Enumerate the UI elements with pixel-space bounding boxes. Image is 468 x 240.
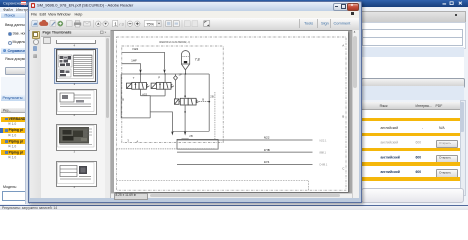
svg-text:2B: 2B (189, 134, 193, 138)
valve1 feed stem (139, 74, 141, 96)
enclosure right wall (208, 74, 210, 131)
white page (114, 31, 348, 192)
valve 1Y1 (solenoid valve) (126, 83, 149, 90)
thumbnail 2 (56, 89, 98, 115)
inner dashed riser (213, 92, 215, 140)
svg-text:P: P (158, 76, 160, 80)
reader menu bar (29, 11, 359, 19)
svg-text:RESERVOIR GAS FILLING PRESSURE: RESERVOIR GAS FILLING PRESSURE (→8) (159, 40, 190, 44)
svg-text:1HB: 1HB (263, 148, 269, 152)
svg-text:888.1: 888.1 (319, 151, 326, 155)
valve2 feed stem (164, 74, 166, 96)
line to port N22 (177, 139, 313, 141)
toolbar icons (29, 18, 319, 30)
link wire valve2 to lower run (150, 95, 165, 97)
svg-text:T: T (132, 76, 134, 80)
page down button (102, 21, 107, 26)
svg-text:1P4: 1P4 (263, 160, 269, 164)
wide button (361, 78, 465, 89)
zoom level box (144, 21, 157, 27)
reader close button (347, 3, 359, 11)
box icon (66, 21, 72, 27)
wire N22 pilot line (121, 53, 164, 70)
valve3 vertical stem through body (184, 74, 186, 131)
arrow to manifold (left) (171, 132, 173, 136)
separator (181, 20, 183, 27)
svg-text:3: 3 (127, 139, 129, 143)
options icon row (43, 37, 51, 44)
white form panel (360, 22, 466, 50)
open icon (31, 21, 37, 27)
sheet frame (dash-dot border) (116, 37, 346, 190)
results table (360, 102, 462, 196)
thumbnail 4 (56, 161, 98, 187)
system boundary (dash-dot box) (121, 46, 222, 143)
bg window title bar (0, 0, 468, 7)
svg-text:B: B (342, 115, 344, 119)
doc area (111, 30, 352, 198)
reader toolbar (29, 18, 359, 31)
bg window body (0, 12, 468, 204)
reader left nav strip (30, 30, 42, 198)
thumbnail 0 (partial at top) (56, 40, 96, 45)
dashed outlet of valve3 (199, 101, 209, 103)
reader title bar (29, 2, 359, 12)
svg-text:C: C (342, 167, 345, 171)
svg-text:75%: 75% (146, 21, 154, 26)
gray toolbar band (360, 11, 466, 24)
separator (162, 20, 164, 27)
supply bus wire (121, 73, 209, 75)
junction dots on valve3 stem (184, 96, 186, 98)
enclosure left wall (121, 74, 150, 118)
wire 1HF pilot line (121, 64, 140, 70)
yellow result rows (1, 117, 25, 122)
svg-text:7,8: 7,8 (194, 58, 199, 62)
hydraulic schematic drawing (114, 31, 348, 192)
Spravochniki header band (1, 48, 25, 54)
yellow separators and data rows (361, 118, 460, 121)
svg-text:B: B (202, 98, 204, 102)
Poisk header band (1, 13, 25, 18)
page up button (95, 21, 100, 26)
mail icon (83, 21, 89, 26)
page number box (112, 21, 117, 27)
zoom out (127, 21, 132, 26)
fullscreen icon (203, 21, 209, 27)
svg-text:A: A (342, 44, 344, 48)
separator (92, 20, 94, 27)
Rezultaty header band (1, 95, 25, 101)
grayed icon 2 (192, 21, 198, 27)
svg-text:N22.1: N22.1 (319, 139, 326, 143)
collection line (172, 131, 209, 133)
bg window bottom border and status strip (0, 205, 468, 207)
svg-text:1P: 1P (178, 73, 182, 77)
splitter (25, 12, 30, 204)
right table scrollbar (460, 100, 467, 196)
cloud save icon (39, 20, 48, 26)
reader pdf icon (31, 3, 36, 8)
grayed icon 1 (184, 21, 190, 27)
lower boundary dashed line (116, 148, 215, 150)
line to port 1HB (177, 151, 313, 153)
list header (1, 108, 25, 113)
svg-text:N22: N22 (132, 47, 138, 51)
accumulator 7,8 (181, 51, 189, 74)
radio unselected (8, 41, 12, 45)
svg-text:1HF: 1HF (131, 59, 137, 63)
bg menu bar (0, 7, 468, 14)
arrow to manifold (right) (184, 132, 186, 136)
printer icon (74, 22, 81, 25)
radio selected (8, 32, 12, 36)
check valve (diamond) (173, 76, 177, 81)
arrow on N22 wire (163, 70, 165, 74)
junction dot at enclosure wall (208, 101, 210, 103)
svg-text:N22: N22 (263, 136, 269, 140)
drain link wire (140, 96, 150, 118)
pencil icon (50, 21, 56, 27)
valve 1Y2 (solenoid valve) (151, 83, 174, 90)
check valve stem down to valve 2B3 (175, 74, 180, 102)
nav strip icons (32, 31, 40, 39)
svg-text:1: 1 (114, 22, 117, 27)
zoom in (134, 21, 139, 26)
fit page icon (173, 21, 179, 27)
svg-text:D-88.1: D-88.1 (319, 163, 327, 167)
sheet footer divider (116, 181, 308, 191)
svg-text:B: B (122, 98, 124, 102)
lower branch wire (150, 112, 172, 131)
thumbnail 3 (56, 124, 98, 151)
manifold block (177, 140, 218, 150)
bottom rounded collapsed panel (361, 188, 464, 203)
svg-text:4: 4 (136, 140, 138, 144)
svg-text:/ 3: / 3 (119, 22, 124, 27)
valve 2B3 (horizontal solenoid valve) (174, 99, 199, 106)
panel scrollbar (105, 37, 110, 198)
flag icon on title (21, 1, 26, 5)
junction T-bar (181, 138, 188, 140)
horizontal scrollbar (111, 193, 352, 199)
thumbnail 1 (selected) (54, 48, 98, 84)
selection marker (0, 128, 3, 133)
combo (5, 67, 30, 75)
line to port 1P4 (177, 164, 313, 166)
junction dots on bus (139, 74, 141, 76)
arrow on 1HF wire (139, 70, 141, 74)
page size pill (114, 193, 148, 200)
separator (124, 20, 126, 27)
svg-text:2B: 2B (210, 95, 214, 99)
fit width icon (165, 21, 171, 27)
vertical scrollbar (352, 30, 360, 198)
thumbnails panel (41, 30, 112, 198)
green save icon (57, 21, 62, 26)
reader caption buttons: min/max group (333, 3, 349, 11)
